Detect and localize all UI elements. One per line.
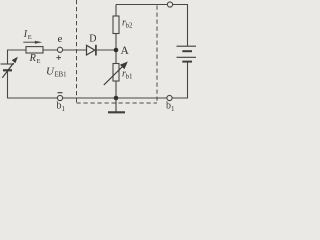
terminal b2 (top) [167, 2, 172, 7]
wire: bottom horizontal [7, 97, 188, 99]
wire: rb2 branch vertical [115, 5, 117, 51]
wire: left vertical lower [7, 71, 9, 99]
svg-text:1: 1 [62, 105, 66, 113]
svg-text:E: E [37, 58, 41, 65]
adjustable source cell (left branch) [1, 64, 15, 70]
resistor rb2 [113, 16, 119, 34]
svg-text:1: 1 [171, 105, 175, 113]
wire: left vertical upper [7, 50, 9, 65]
battery UBB [177, 46, 197, 61]
wire: rb1 branch vertical [115, 50, 117, 98]
wire: top horizontal [116, 4, 188, 6]
svg-text:D: D [89, 34, 96, 45]
node A junction dot [114, 48, 119, 53]
svg-text:b2: b2 [126, 22, 134, 30]
resistor RE [26, 47, 43, 53]
junction dot at rb1 bottom [114, 96, 119, 101]
dashed line right [156, 6, 158, 104]
terminal b1 (right) [167, 95, 172, 100]
wire: top-left horizontal (e branch) [8, 49, 117, 51]
svg-text:e: e [58, 33, 63, 45]
minus sign [58, 92, 63, 94]
svg-text:EB1: EB1 [55, 71, 67, 78]
svg-text:A: A [121, 45, 130, 57]
resistor rb1 (variable) [113, 64, 119, 82]
dashed line bottom [77, 102, 158, 104]
current arrow IE [23, 41, 42, 44]
svg-text:b1: b1 [126, 73, 134, 81]
terminal b1 (left, with minus) [57, 95, 62, 100]
wire: right vertical lower [187, 62, 189, 99]
dashed box (transistor boundary) [77, 0, 158, 103]
node e terminal circle [57, 47, 62, 52]
rb1 variable arrow [104, 62, 128, 86]
diode D [87, 45, 96, 56]
ground [108, 98, 125, 112]
plus sign [56, 55, 61, 60]
svg-text:E: E [28, 34, 32, 41]
source variable arrow [2, 57, 18, 78]
svg-text:R: R [29, 53, 37, 64]
dashed line left [76, 0, 78, 103]
wire: right vertical upper [187, 5, 189, 47]
